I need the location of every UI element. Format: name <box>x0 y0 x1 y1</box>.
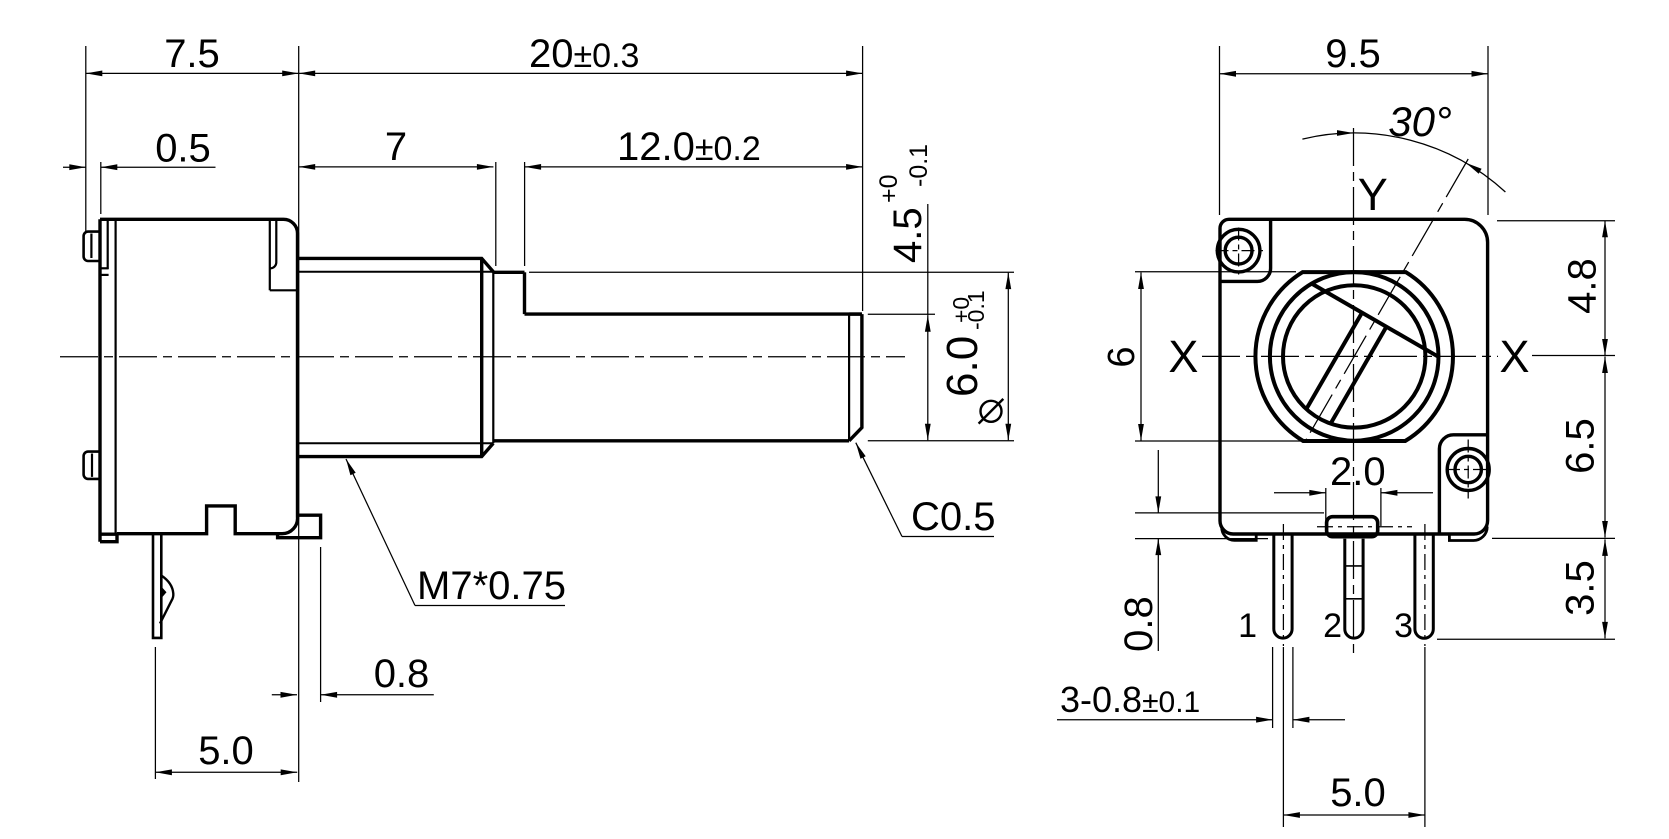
svg-text:1: 1 <box>1238 607 1257 645</box>
extension line tab top (y=512.9) <box>1135 512 1324 514</box>
pin 2 cross line upper <box>1345 565 1363 567</box>
rotor middle circle <box>1270 272 1439 441</box>
top crimp tab <box>84 232 99 261</box>
pin 1 centerline <box>1282 524 1284 646</box>
right bracket foot (front view) <box>1449 527 1487 541</box>
shaft end face <box>849 314 862 441</box>
extension line tab bottom (y=538.6) <box>1135 538 1268 540</box>
svg-text:30°: 30° <box>1388 98 1452 145</box>
dimension 2.0 <box>1274 492 1326 494</box>
dimension 3.5 <box>1604 539 1606 638</box>
svg-text:5.0: 5.0 <box>1330 771 1386 815</box>
extension line pin3 center (x=1424.9) <box>1424 647 1426 827</box>
svg-text:7.5: 7.5 <box>164 32 220 76</box>
extension line flat start (x=524.6) <box>524 162 526 266</box>
screw hole top-left outer <box>1217 229 1260 272</box>
arc arrow at 30deg line <box>1466 163 1482 174</box>
rear slot bottom shelf <box>270 289 297 291</box>
left bracket foot (front view) <box>1222 527 1257 540</box>
extension line rotor bottom (y=441) <box>1135 440 1302 442</box>
label 4.5 +0/-0.1 rotated <box>875 144 933 263</box>
screw hole top-left inner <box>1225 237 1252 264</box>
bushing chamfer edge line <box>492 272 494 443</box>
top-left mounting ear <box>1220 219 1271 281</box>
extension line pin1 center (x=155.4) <box>154 647 156 779</box>
body front cover line <box>98 219 101 541</box>
dimension 7 <box>299 166 494 168</box>
svg-text:3.5: 3.5 <box>1559 560 1603 616</box>
shaft flat step <box>523 272 526 314</box>
pin 3 centerline <box>1424 524 1426 646</box>
angular dimension arc 30deg <box>1302 133 1505 192</box>
pin 3 (front view) <box>1415 534 1433 638</box>
top crimp tab inner line <box>90 234 92 259</box>
screw hole bottom-right inner <box>1455 456 1481 482</box>
cover bottom cap <box>100 534 117 542</box>
svg-text:2.0: 2.0 <box>1330 450 1386 494</box>
screwdriver slot left edge <box>1306 313 1362 409</box>
svg-text:M7*0.75: M7*0.75 <box>417 564 566 608</box>
X centerline <box>1202 355 1498 357</box>
extension line body left (x=1219.5) <box>1219 46 1221 215</box>
bushing thread inner line top <box>299 271 493 273</box>
terminal pin (side view) <box>153 534 161 638</box>
extension line body bottom right (y=538.4) <box>1492 537 1615 539</box>
dimension 4.8 <box>1604 221 1606 356</box>
rear slot right wall with hook <box>271 219 277 268</box>
shaft flat top line <box>525 312 862 315</box>
30deg rotation line <box>1305 159 1468 441</box>
dimension 3-0.8±0.1 <box>1057 719 1273 721</box>
shaft bottom line <box>493 439 849 442</box>
extension line 0.5 (x=100.8) <box>100 162 102 214</box>
svg-text:-0.1: -0.1 <box>963 290 989 330</box>
dimension 4.5 +0/-0.1 <box>927 204 929 315</box>
svg-text:0.8: 0.8 <box>374 652 430 696</box>
shaft end top edge <box>849 312 862 315</box>
extension line body right (x=1488) <box>1487 46 1489 215</box>
dimension 0.8 (side view) <box>272 694 297 696</box>
rear slot left wall <box>269 219 271 290</box>
extension line pin1 left edge <box>1272 647 1274 728</box>
arc arrow at Y axis <box>1337 130 1354 136</box>
svg-text:0.5: 0.5 <box>155 127 211 171</box>
screw hole bottom-right outer <box>1447 449 1489 491</box>
pin 1 (front view) <box>1274 534 1292 638</box>
extension line flat top (y=314.2) <box>868 313 935 315</box>
extension line pin1 center (x=1283.4) <box>1282 647 1284 827</box>
svg-text:4.8: 4.8 <box>1561 258 1605 314</box>
svg-text:3-0.8±0.1: 3-0.8±0.1 <box>1060 679 1200 720</box>
dimension 7.5 <box>86 72 299 74</box>
dimension dia 6.0 +0/-0.1 <box>1007 273 1009 441</box>
bottom crimp tab inner line <box>91 454 93 477</box>
svg-text:12.0±0.2: 12.0±0.2 <box>617 125 761 169</box>
pin 2 tab centerline <box>1317 526 1412 528</box>
screw hole BR center marks <box>1447 469 1490 471</box>
leader M7*0.75 <box>346 459 356 475</box>
extension line shaft bottom (y=440.8) <box>868 440 1014 442</box>
rotor outer circle with flats <box>1255 272 1453 441</box>
extension line X axis right <box>1532 355 1615 357</box>
svg-text:Y: Y <box>1358 169 1388 220</box>
horizontal centerline (side view) <box>60 356 905 358</box>
extension line bushing end (x=495.8) <box>495 162 497 266</box>
bushing thread inner line bottom <box>299 442 493 444</box>
extension line pin1 right edge <box>1292 647 1294 728</box>
dimension 5.0 (side view) <box>155 771 297 773</box>
pin 2 mounting tab <box>1327 517 1378 537</box>
screw hole TL center marks <box>1216 250 1264 252</box>
body cover mid line <box>107 219 109 269</box>
svg-text:5.0: 5.0 <box>198 729 254 773</box>
svg-text:-0.1: -0.1 <box>905 144 933 187</box>
rotor inner circle <box>1283 285 1425 427</box>
extension line foot right (x=320.6) <box>320 547 322 702</box>
dimension 20±0.3 <box>299 72 863 74</box>
label dia6.0 +0/-0.1 rotated <box>938 290 989 397</box>
bottom-right mounting ear <box>1439 435 1487 534</box>
dimension 9.5 <box>1220 73 1489 75</box>
svg-text:X: X <box>1168 331 1198 382</box>
extension line rotor top (y=271.7) <box>1135 271 1296 273</box>
pin 2 (front view) <box>1345 539 1363 638</box>
dimension 0.8 front view <box>1157 450 1159 513</box>
potentiometer body outline (side view) <box>100 219 298 533</box>
front body outline <box>1220 219 1488 534</box>
extension line at bushing face (x=298.7) <box>298 46 300 782</box>
svg-text:2: 2 <box>1323 607 1342 645</box>
dimension 6 <box>1140 273 1142 441</box>
svg-text:4.5: 4.5 <box>886 207 930 263</box>
extension line shaft top (y=272.2) <box>529 271 1014 273</box>
rear bracket foot (side view) <box>278 515 321 538</box>
leader C0.5 <box>856 443 866 459</box>
svg-text:3: 3 <box>1394 607 1413 645</box>
extension line pin bottom right (y=639.3) <box>1437 638 1615 640</box>
svg-text:0.8: 0.8 <box>1117 596 1161 652</box>
dimension 0.5 <box>63 166 86 168</box>
extension line at shaft end (x=862.6) <box>862 46 864 311</box>
screwdriver slot right edge <box>1331 327 1387 424</box>
shaft top (round section) <box>493 271 524 274</box>
shaft chamfer inner line <box>848 314 850 441</box>
dimension 12.0±0.2 <box>525 166 863 168</box>
dimension 6.5 <box>1604 357 1606 538</box>
Y centerline <box>1353 128 1355 656</box>
svg-text:9.5: 9.5 <box>1325 32 1381 76</box>
body front inner line <box>114 219 116 534</box>
cover mid notch ticks <box>101 267 109 269</box>
pin anchor barb <box>160 576 173 624</box>
threaded bushing outline <box>299 258 493 456</box>
svg-text:6: 6 <box>1101 346 1143 367</box>
extension line body top right (y=220.7) <box>1497 220 1615 222</box>
svg-text:6.0: 6.0 <box>938 336 987 397</box>
svg-text:7: 7 <box>385 125 407 169</box>
svg-text:X: X <box>1499 331 1529 382</box>
svg-text:20±0.3: 20±0.3 <box>529 32 639 76</box>
svg-text:6.5: 6.5 <box>1559 418 1603 474</box>
rotor D-flat chord <box>1312 284 1439 357</box>
extension line tab left (x=1325.8) <box>1325 488 1327 526</box>
pin 2 cross line lower <box>1345 598 1363 600</box>
extension line tab right (x=1380.9) <box>1380 488 1382 526</box>
extension line left of body (x=85.8) <box>85 46 87 233</box>
pin barb notch <box>161 587 166 599</box>
svg-text:+0: +0 <box>875 174 903 203</box>
bottom crimp tab <box>84 452 99 479</box>
dimension 5.0 front view <box>1283 814 1425 816</box>
svg-text:C0.5: C0.5 <box>911 495 996 539</box>
